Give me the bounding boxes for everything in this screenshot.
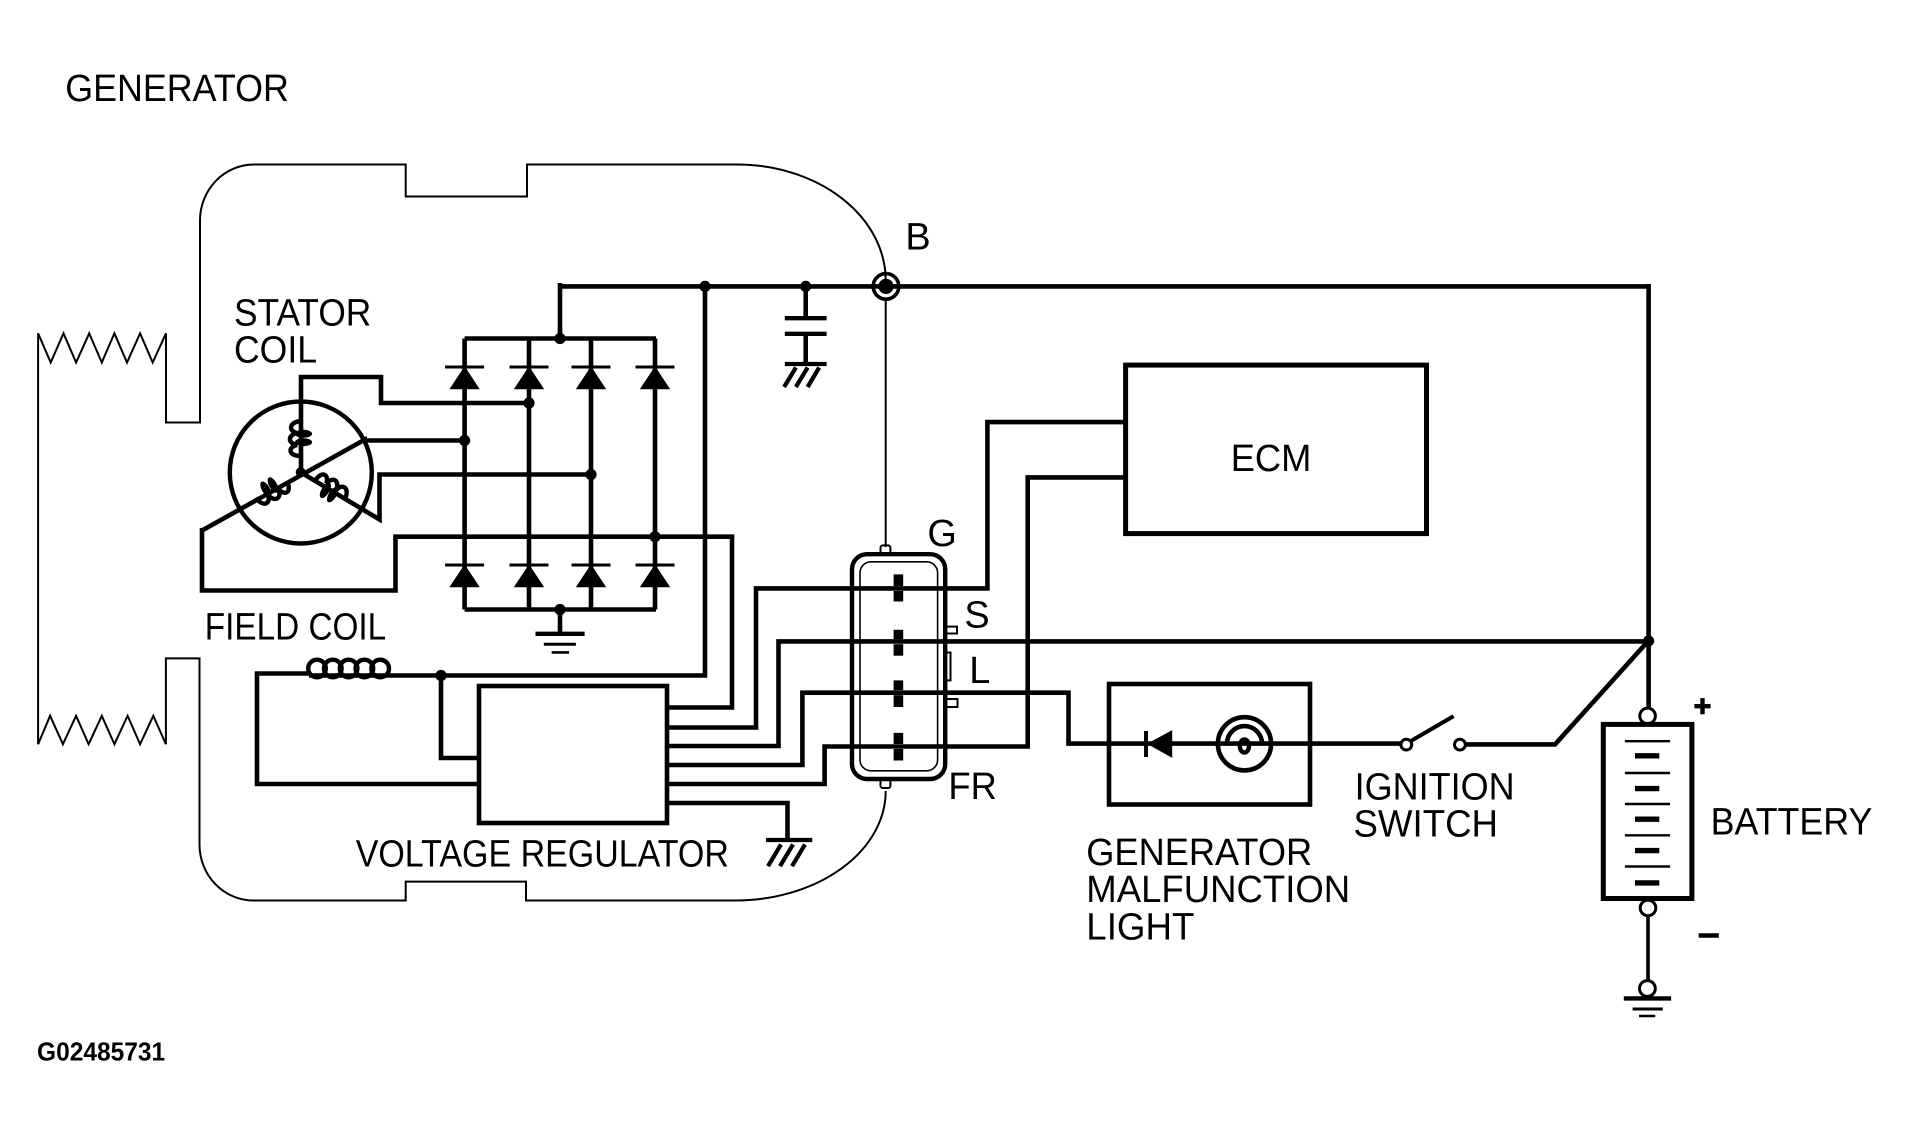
connector S key notch [945,627,957,634]
connector pin L [894,680,904,707]
generator enclosure bottom-right curve to connector [735,791,886,901]
ignition switch [1401,716,1465,750]
svg-text:L: L [969,650,990,692]
plus sign battery [1694,698,1710,714]
field coil inductor [259,660,441,678]
WIRES_START [202,283,1649,840]
rectifier earth ground [536,610,585,653]
junction dot phase C column 3 [585,469,596,480]
wire battery negative to ground [1646,916,1650,981]
svg-text:FR: FR [948,766,996,808]
wire regulator G to connector G pin and ECM [667,422,1126,727]
rectifier column 3 [589,339,594,610]
battery positive terminal [1640,708,1656,724]
connector top tab [881,545,891,554]
ECM box [1126,365,1427,533]
junction dot field coil [435,670,446,681]
wire stator phase C to rectifier column 3 [301,472,591,519]
diode D2 top [510,367,549,388]
wire field coil feed from B+ rail [441,286,705,675]
svg-text:GENERATOR: GENERATOR [65,68,289,110]
connector L key notch [945,653,951,681]
connector FR key notch [945,699,958,707]
capacitor chassis ground [784,364,827,387]
wire battery drop vertical [1646,284,1651,709]
connector body [852,545,958,788]
diode D7 bottom [572,565,611,586]
junction dot phase A column 2 [523,397,534,408]
generator enclosure top edge with notch and top-left rounded corner [166,165,737,423]
wire regulator FR to connector FR row and ECM [667,477,1126,784]
wire field coil right junction to regulator [441,676,479,759]
diode D1 top [445,367,484,388]
TEXT_START [65,68,1872,948]
generator malfunction light box [1109,684,1310,805]
pulley zigzag bottom [38,716,166,744]
battery cell plates [1625,741,1670,883]
node B terminal [873,274,899,300]
diode D3 top [572,367,611,388]
svg-text:B: B [905,217,930,259]
svg-text:G02485731: G02485731 [37,1037,165,1067]
diode D4 top [636,367,675,388]
svg-text:SWITCH: SWITCH [1354,804,1499,846]
junction dot neutral column 4 [649,531,660,542]
svg-text:GENERATOR: GENERATOR [1086,832,1312,874]
generator enclosure top-right curve to node B [737,165,886,281]
svg-text:IGNITION: IGNITION [1355,766,1515,808]
wire rectifier output up to B+ rail [558,283,563,339]
svg-text:VOLTAGE REGULATOR: VOLTAGE REGULATOR [356,834,729,876]
generator enclosure bottom-left with notch [166,658,735,900]
stator neutral center dot [296,467,306,477]
rectifier column 2 [527,339,532,610]
junction dot S sense at battery riser [1643,635,1654,646]
connector bottom tab [881,779,891,788]
rectifier bottom bus [465,607,656,612]
junction dot B+ field feed [699,281,710,292]
wire stator phase A step to rectifier column 2 [301,377,529,472]
diode D8 bottom [636,565,675,586]
junction dot rectifier bottom bus [554,604,565,615]
battery negative terminal [1640,900,1656,916]
wire L terminal to malfunction light [945,693,1401,744]
capacitor C1 [785,286,827,362]
wire S terminal to battery sense junction [852,639,1649,644]
wire stator neutral to rectifier column 4 and regulator P input [202,528,732,708]
wire regulator S to connector S row [667,641,852,746]
connector pin G [894,574,904,601]
lamp malfunction indicator [1218,717,1271,770]
svg-text:STATOR: STATOR [234,293,371,335]
stator coil winding A (top) [290,421,312,456]
minus sign battery [1699,933,1719,937]
pulley left vertical [37,333,39,744]
svg-text:MALFUNCTION: MALFUNCTION [1086,869,1350,911]
svg-text:G: G [927,513,957,555]
rectifier bridge [465,339,656,610]
junction dot phase B column 1 [459,435,470,446]
wire stator phase B diagonal to rectifier column 1 [202,440,465,531]
battery case [1603,724,1692,898]
svg-text:COIL: COIL [234,330,317,372]
voltage regulator box [479,686,667,823]
svg-text:FIELD COIL: FIELD COIL [205,607,386,649]
rectifier column 4 [653,339,658,610]
stator coil [230,402,372,544]
ENCLOSURE_START [38,165,886,901]
junction dot rectifier top bus [554,333,565,344]
svg-text:ECM: ECM [1231,438,1312,480]
svg-text:LIGHT: LIGHT [1086,906,1194,948]
pulley zigzag top [38,333,166,362]
battery [1603,708,1692,1016]
diode D5 bottom [445,565,484,586]
connector pin FR [894,733,904,761]
battery ground terminal circle [1640,981,1656,997]
stator circle [230,402,372,544]
wire field coil left lead to regulator [257,674,479,785]
enclosure line node B to connector top tab [885,299,887,547]
stator coil winding C (lower-right) [309,472,350,509]
battery earth ground [1624,998,1671,1016]
diode D6 bottom [510,565,549,586]
wire regulator L to connector L row [667,693,945,765]
wire B+ output: node B to battery drop [560,284,1649,289]
svg-text:S: S [964,594,989,636]
wire regulator ground lead [667,803,788,840]
regulator chassis ground [766,840,812,866]
junction dot capacitor tap [800,281,811,292]
svg-text:BATTERY: BATTERY [1711,802,1873,844]
diode D9 malfunction light [1146,731,1172,757]
stator coil winding B (lower-left) [250,471,291,508]
rectifier top bus [465,336,656,341]
rectifier column 1 [462,339,467,610]
wire ignition switch to diagonal riser [1465,641,1648,745]
connector pin S [894,630,904,656]
